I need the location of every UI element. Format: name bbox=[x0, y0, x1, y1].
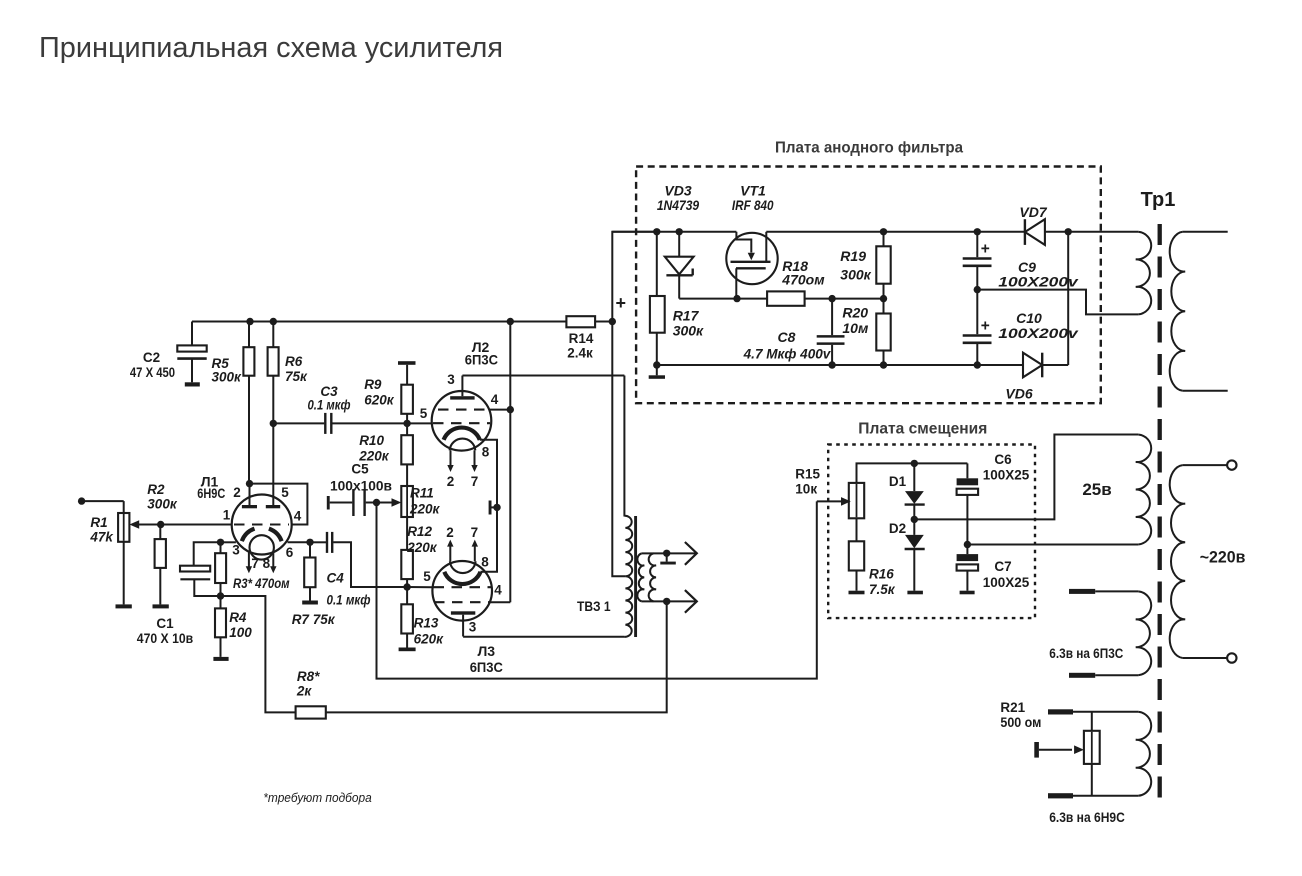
terminal bar R13 bottom bbox=[399, 648, 416, 652]
ground R2 bbox=[153, 604, 169, 608]
svg-text:+: + bbox=[981, 241, 990, 258]
label Л3 pin8 bbox=[481, 555, 489, 570]
svg-text:C4: C4 bbox=[327, 571, 345, 586]
svg-text:7.5к: 7.5к bbox=[869, 582, 896, 597]
schematic title bbox=[39, 32, 503, 64]
label Л1 pins78 bbox=[251, 556, 270, 571]
label Л1 pin5 bbox=[281, 485, 289, 500]
svg-text:R20: R20 bbox=[842, 305, 868, 321]
svg-text:100: 100 bbox=[229, 625, 252, 640]
Tp1 25v winding bbox=[1136, 435, 1151, 545]
capacitor C8 bbox=[817, 299, 845, 365]
resistor R10 bbox=[401, 423, 413, 464]
svg-text:C6: C6 bbox=[994, 452, 1012, 467]
tube Л2 envelope bbox=[432, 391, 492, 451]
resistor R5 bbox=[243, 322, 254, 484]
svg-text:Принципиальная схема усилителя: Принципиальная схема усилителя bbox=[39, 32, 503, 64]
output arrow bottom bbox=[685, 590, 697, 613]
Л3 anode bar pin3 bbox=[451, 611, 475, 636]
label Л1 pin4 bbox=[294, 509, 302, 524]
wire doubler midpoint bbox=[977, 290, 1138, 315]
VT1 gate path bbox=[736, 232, 755, 260]
node cathodes bbox=[493, 504, 500, 511]
label Tp1 bbox=[1141, 189, 1176, 211]
svg-text:3: 3 bbox=[447, 372, 455, 387]
label R2 bbox=[147, 482, 178, 512]
svg-text:VD6: VD6 bbox=[1005, 386, 1032, 402]
label Л2 pin2 bbox=[447, 474, 455, 489]
label 220v bbox=[1200, 549, 1246, 567]
capacitor C5 bbox=[330, 489, 377, 516]
label R18 bbox=[781, 258, 825, 288]
bias board box bbox=[828, 445, 1035, 619]
svg-text:5: 5 bbox=[423, 569, 431, 584]
svg-text:100X200v: 100X200v bbox=[998, 325, 1079, 341]
node C6-C7 bbox=[964, 541, 971, 548]
label Л2 pin3 bbox=[447, 372, 455, 387]
wire feedback to R8 bbox=[221, 596, 296, 712]
label C10 plus bbox=[981, 318, 990, 335]
Л3 heater arc bbox=[450, 561, 476, 573]
svg-text:R4: R4 bbox=[229, 610, 247, 625]
wire bias top bbox=[857, 463, 968, 483]
Л2 cathode arc bbox=[444, 428, 480, 440]
node C10-rail bbox=[974, 361, 981, 368]
svg-text:R3* 470ом: R3* 470ом bbox=[233, 576, 290, 591]
wire output top bbox=[642, 552, 697, 554]
label C3 bbox=[308, 384, 351, 413]
node R5-pin2 bbox=[246, 480, 253, 487]
svg-text:Плата смещения: Плата смещения bbox=[858, 421, 987, 438]
label R5 bbox=[212, 356, 243, 385]
resistor R7 bbox=[304, 542, 315, 600]
svg-text:R15: R15 bbox=[795, 467, 820, 482]
label Л1 pin2 bbox=[233, 485, 241, 500]
resistor R2 bbox=[155, 525, 166, 605]
Tp1 primary top-right winding bbox=[1170, 232, 1186, 391]
node output top bbox=[663, 550, 670, 557]
node wiper-R2 bbox=[157, 521, 164, 528]
svg-text:2: 2 bbox=[233, 485, 241, 500]
svg-text:R10: R10 bbox=[359, 433, 384, 448]
capacitor C9 bbox=[963, 232, 992, 290]
svg-text:R12: R12 bbox=[407, 524, 432, 539]
svg-text:R13: R13 bbox=[414, 616, 439, 631]
VT1 source lead bbox=[735, 268, 737, 298]
label Л2 pin8 bbox=[482, 445, 490, 460]
node rail-VD3 bbox=[676, 228, 683, 235]
svg-text:Тр1: Тр1 bbox=[1141, 189, 1176, 211]
svg-text:R19: R19 bbox=[840, 248, 866, 264]
label D1 bbox=[889, 474, 907, 489]
Л1 anode plate pin2 bbox=[242, 484, 257, 509]
VT1 drain lead bbox=[765, 232, 767, 262]
Л1 heater circle bbox=[250, 535, 274, 559]
svg-text:7: 7 bbox=[471, 474, 479, 489]
label Л1 pin1 bbox=[223, 508, 231, 523]
capacitor C1 bbox=[180, 542, 221, 596]
node R20-gnd bbox=[880, 361, 887, 368]
svg-text:1: 1 bbox=[223, 508, 231, 523]
label Л1 pin3 bbox=[232, 543, 240, 558]
svg-text:6Н9С: 6Н9С bbox=[197, 485, 225, 501]
label Л2 pin5 bbox=[420, 406, 428, 421]
Л3 heater leads bbox=[447, 540, 478, 562]
zener VD3 bbox=[665, 232, 694, 299]
ground C7 bbox=[960, 591, 975, 595]
label Л3 pin3 bbox=[469, 620, 477, 635]
svg-text:D2: D2 bbox=[889, 521, 906, 536]
Л2 heater leads bbox=[447, 450, 477, 472]
node output bottom bbox=[663, 598, 670, 605]
wire R14 to filter board bbox=[612, 232, 657, 322]
svg-text:C7: C7 bbox=[994, 559, 1011, 574]
footnote bbox=[263, 790, 371, 805]
label filter board title bbox=[775, 140, 963, 157]
svg-text:+: + bbox=[615, 293, 626, 313]
svg-text:620к: 620к bbox=[414, 632, 445, 647]
node C9-C10 bbox=[974, 286, 981, 293]
node C4-R12-grid bbox=[403, 583, 410, 590]
diode VD7 bbox=[1025, 219, 1045, 245]
svg-text:C8: C8 bbox=[778, 329, 796, 345]
TVZ primary winding bbox=[624, 516, 632, 637]
wire bias to 25v top bbox=[914, 435, 1138, 520]
svg-text:100х100в: 100х100в bbox=[330, 479, 392, 494]
svg-text:300к: 300к bbox=[673, 323, 704, 339]
svg-text:2к: 2к bbox=[296, 684, 313, 699]
svg-text:*требуют подбора: *требуют подбора bbox=[263, 790, 371, 805]
svg-text:R11: R11 bbox=[410, 486, 434, 501]
svg-text:C2: C2 bbox=[143, 350, 160, 365]
label R16 bbox=[869, 567, 896, 598]
svg-text:R7 75к: R7 75к bbox=[292, 612, 336, 627]
resistor R3 bbox=[215, 542, 226, 596]
label D2 bbox=[889, 521, 906, 536]
resistor R19 bbox=[876, 232, 890, 299]
resistor R8 bbox=[296, 706, 326, 718]
node R19-R20 bbox=[880, 295, 887, 302]
wire Л3 anode to TVZ bbox=[463, 636, 624, 638]
label VT1 bbox=[732, 183, 774, 214]
wire bias to 25v bottom bbox=[967, 544, 1138, 546]
label R1 bbox=[89, 515, 114, 545]
svg-text:4: 4 bbox=[494, 583, 502, 598]
terminal bar 6.3v-6P3S bottom bbox=[1069, 673, 1138, 678]
label R6 bbox=[285, 354, 308, 384]
node R6-C3 bbox=[270, 420, 277, 427]
svg-text:IRF 840: IRF 840 bbox=[732, 197, 774, 213]
wire 220v lead upper bbox=[1183, 464, 1227, 466]
capacitor C3 bbox=[273, 413, 407, 434]
svg-text:6П3С: 6П3С bbox=[465, 352, 498, 368]
node source-R18 bbox=[733, 295, 740, 302]
wire to Л2 grid bbox=[407, 422, 432, 424]
diode D1 bbox=[905, 463, 925, 519]
svg-text:4: 4 bbox=[294, 509, 302, 524]
svg-text:D1: D1 bbox=[889, 474, 907, 489]
Л2 grid2 dashes bbox=[433, 422, 490, 424]
terminal bar R21 top bbox=[1048, 709, 1138, 714]
terminal circle 220v lower bbox=[1227, 653, 1236, 662]
Л3 cathode arc bbox=[444, 572, 480, 584]
resistor R9 bbox=[401, 385, 413, 424]
node pin3-R3 bbox=[217, 539, 224, 546]
node R3-R4 bbox=[217, 592, 224, 599]
svg-text:0.1 мкф: 0.1 мкф bbox=[327, 593, 371, 608]
input terminal bbox=[78, 497, 124, 504]
terminal bar 6.3v-6P3S top bbox=[1069, 589, 1138, 594]
node rail-doubler bbox=[1065, 228, 1072, 235]
svg-text:75к: 75к bbox=[285, 369, 308, 384]
svg-text:2: 2 bbox=[446, 525, 454, 540]
Л1 cathode lead pin3 bbox=[221, 541, 236, 543]
wire R18 to R19R20 bbox=[805, 298, 884, 300]
resistor R6 bbox=[268, 322, 279, 506]
svg-text:10м: 10м bbox=[842, 320, 869, 336]
label Л3 bbox=[470, 643, 503, 675]
diode VD6 bbox=[1023, 353, 1042, 378]
label C9 bbox=[998, 259, 1079, 290]
label C8 bbox=[743, 329, 832, 362]
terminal bar R9 top bbox=[398, 361, 416, 385]
svg-text:300к: 300к bbox=[212, 370, 243, 385]
output ground bar bbox=[660, 553, 676, 564]
node pin6-R7 bbox=[306, 539, 313, 546]
wire filter bottom rail bbox=[657, 232, 1068, 365]
svg-text:R6: R6 bbox=[285, 354, 303, 369]
filter board box bbox=[636, 167, 1101, 404]
label R4 bbox=[229, 610, 252, 640]
resistor R13 bbox=[401, 587, 413, 648]
node bus-screen bbox=[507, 318, 514, 325]
label C1 bbox=[137, 616, 193, 646]
label R9 bbox=[364, 377, 395, 408]
VT1 channel plate bbox=[736, 267, 766, 269]
label Л3 pin2 bbox=[446, 525, 454, 540]
label C5 bbox=[330, 462, 392, 494]
label C10 bbox=[998, 310, 1079, 341]
label C2 bbox=[130, 350, 175, 380]
ground R17 bbox=[649, 365, 665, 379]
label bias board title bbox=[858, 421, 987, 438]
svg-text:4.7 Мкф 400v: 4.7 Мкф 400v bbox=[743, 346, 832, 362]
node rail-R17 bbox=[653, 228, 660, 235]
wire to Л3 grid bbox=[407, 586, 433, 588]
svg-text:220к: 220к bbox=[409, 502, 441, 517]
node screen Л2 bbox=[507, 406, 514, 413]
svg-text:10к: 10к bbox=[795, 482, 817, 497]
label Л3 pin7 bbox=[471, 525, 479, 540]
wire B+ bus bbox=[192, 321, 566, 323]
Tp1 220v winding bbox=[1170, 465, 1185, 658]
svg-text:6.3в на 6П3С: 6.3в на 6П3С bbox=[1049, 646, 1123, 661]
ground D2 bbox=[907, 591, 923, 595]
label R3 bbox=[233, 576, 290, 591]
wire wiper arrow R11 bbox=[377, 498, 402, 507]
label R14 bbox=[567, 331, 594, 361]
Tp1 6.3v-6P3S winding bbox=[1136, 591, 1151, 675]
terminal circle 220v upper bbox=[1227, 460, 1236, 469]
node R17-gnd bbox=[653, 361, 660, 368]
capacitor C10 bbox=[963, 290, 992, 365]
wire screen bus bbox=[509, 322, 511, 603]
node D1 top bbox=[911, 460, 918, 467]
svg-text:100X25: 100X25 bbox=[983, 468, 1030, 483]
svg-text:620к: 620к bbox=[364, 393, 395, 408]
node C5-R11wiper bbox=[373, 499, 380, 506]
mosfet VT1 envelope bbox=[726, 233, 777, 284]
wire R15 wiper bbox=[817, 497, 851, 506]
potentiometer R1 bbox=[118, 501, 129, 604]
label R11 bbox=[409, 486, 441, 517]
label R10 bbox=[358, 433, 390, 464]
wire Л2 anode to TVZ bbox=[462, 375, 624, 377]
svg-text:C5: C5 bbox=[351, 462, 369, 477]
svg-text:7 8: 7 8 bbox=[251, 556, 270, 571]
ground R1 bbox=[116, 604, 132, 608]
wire TVZ primary top lead bbox=[623, 376, 625, 517]
svg-text:R2: R2 bbox=[147, 482, 165, 497]
label Л3 pin5 bbox=[423, 569, 431, 584]
label C7 bbox=[983, 559, 1030, 590]
wire output bottom bbox=[642, 600, 697, 602]
Л2 anode bar pin3 bbox=[450, 376, 474, 400]
svg-text:R9: R9 bbox=[364, 377, 382, 392]
resistor R16 bbox=[849, 541, 864, 590]
label R15 bbox=[795, 467, 820, 497]
svg-text:ТВЗ 1: ТВЗ 1 bbox=[577, 599, 611, 614]
svg-text:100X200v: 100X200v bbox=[998, 274, 1079, 290]
label C9 plus bbox=[981, 241, 990, 258]
svg-text:R14: R14 bbox=[569, 331, 594, 346]
Л3 cathode lead pin8 bbox=[481, 507, 498, 571]
label 6.3v-6P3S bbox=[1049, 646, 1123, 661]
label VD6 bbox=[1005, 386, 1032, 402]
wire R8 to output bbox=[326, 601, 667, 712]
svg-text:6.3в на 6Н9С: 6.3в на 6Н9С bbox=[1049, 810, 1125, 825]
svg-text:R16: R16 bbox=[869, 567, 894, 582]
node C3-R9-grid bbox=[403, 420, 410, 427]
potentiometer R21 bbox=[1084, 712, 1100, 796]
Л1 cathode arc right bbox=[269, 529, 282, 542]
svg-text:3: 3 bbox=[469, 620, 477, 635]
node R14-out bbox=[609, 318, 616, 325]
node rail-C9 bbox=[974, 228, 981, 235]
Л1 anode plate pin5 bbox=[266, 505, 280, 508]
potentiometer R11 bbox=[401, 464, 413, 550]
Л3 screen lead pin4 bbox=[490, 601, 510, 603]
Л1 grid dashes bbox=[234, 523, 289, 525]
resistor R12 bbox=[401, 550, 413, 587]
Л1 heater leads bbox=[246, 552, 277, 574]
svg-text:R17: R17 bbox=[673, 308, 700, 324]
svg-text:C10: C10 bbox=[1016, 310, 1042, 326]
wire filter top rail bbox=[612, 231, 1138, 233]
svg-text:4: 4 bbox=[491, 392, 499, 407]
capacitor C2 bbox=[177, 322, 206, 387]
capacitor C4 bbox=[310, 532, 407, 587]
svg-text:R1: R1 bbox=[90, 515, 107, 530]
svg-text:5: 5 bbox=[281, 485, 289, 500]
resistor R4 bbox=[215, 596, 226, 657]
ground R7 bbox=[302, 601, 318, 605]
svg-text:7: 7 bbox=[471, 525, 479, 540]
svg-text:25в: 25в bbox=[1082, 480, 1111, 499]
node C8-gnd bbox=[828, 361, 835, 368]
svg-text:5: 5 bbox=[420, 406, 428, 421]
tube Л3 envelope bbox=[432, 561, 492, 621]
Tp1 HV secondary winding bbox=[1136, 232, 1151, 315]
label R12 bbox=[406, 524, 438, 555]
Л2 cathode lead pin8 bbox=[480, 440, 497, 508]
Л1 cathode arc left bbox=[242, 529, 255, 542]
wire grid1 to R1 wiper bbox=[129, 520, 232, 529]
svg-text:VD7: VD7 bbox=[1019, 204, 1047, 220]
label 25v bbox=[1082, 480, 1111, 499]
label VD3 bbox=[657, 183, 699, 214]
potentiometer R15 bbox=[849, 483, 864, 541]
terminal bar R21 bottom bbox=[1048, 793, 1138, 798]
wire source node line bbox=[679, 298, 767, 300]
terminal bar C5 bbox=[327, 496, 330, 510]
svg-text:300к: 300к bbox=[147, 497, 178, 512]
node bus-C2/R5 bbox=[246, 318, 253, 325]
label R17 bbox=[673, 308, 704, 339]
label Л2 pin4 bbox=[491, 392, 499, 407]
output arrow top bbox=[685, 542, 697, 565]
TVZ core bbox=[634, 516, 637, 637]
Л3 grid2 dashes bbox=[434, 601, 490, 603]
capacitor C6 bbox=[957, 463, 979, 544]
label Л1 bbox=[197, 474, 225, 502]
wire pin2 node to grid pin4 bbox=[250, 484, 308, 525]
svg-text:8: 8 bbox=[482, 445, 490, 460]
resistor R17 bbox=[650, 232, 665, 365]
label R21 bbox=[1000, 700, 1041, 730]
label Л2 pin7 bbox=[471, 474, 479, 489]
svg-text:6: 6 bbox=[286, 545, 294, 560]
svg-text:R8*: R8* bbox=[297, 669, 320, 684]
wire bias line bbox=[377, 501, 817, 678]
Л3 grid1 dashes bbox=[434, 586, 492, 588]
svg-text:0.1 мкф: 0.1 мкф bbox=[308, 398, 351, 413]
svg-text:47 X 450: 47 X 450 bbox=[130, 365, 175, 380]
svg-text:R21: R21 bbox=[1000, 700, 1025, 715]
svg-text:+: + bbox=[981, 318, 990, 335]
svg-text:300к: 300к bbox=[840, 267, 871, 283]
svg-text:470ом: 470ом bbox=[781, 272, 825, 288]
capacitor C7 bbox=[957, 545, 979, 591]
svg-text:Плата анодного фильтра: Плата анодного фильтра bbox=[775, 140, 963, 157]
svg-text:6П3С: 6П3С bbox=[470, 659, 503, 675]
TVZ secondary winding bbox=[637, 553, 644, 601]
TVZ secondary winding second layer bbox=[649, 553, 656, 601]
label Л3 pin4 bbox=[494, 583, 502, 598]
label Л2 bbox=[465, 339, 498, 368]
tube Л1 envelope bbox=[232, 495, 292, 555]
svg-text:1N4739: 1N4739 bbox=[657, 197, 699, 213]
label R20 bbox=[842, 305, 869, 337]
diode D2 bbox=[905, 519, 925, 590]
resistor R18 bbox=[767, 291, 805, 305]
terminal bar cathode bbox=[489, 501, 497, 515]
ground R4 bbox=[213, 657, 228, 661]
VT1 gate plate bbox=[731, 261, 771, 263]
resistor R14 bbox=[510, 316, 612, 327]
svg-text:100X25: 100X25 bbox=[983, 575, 1030, 590]
label 6.3v-6N9S bbox=[1049, 810, 1125, 825]
